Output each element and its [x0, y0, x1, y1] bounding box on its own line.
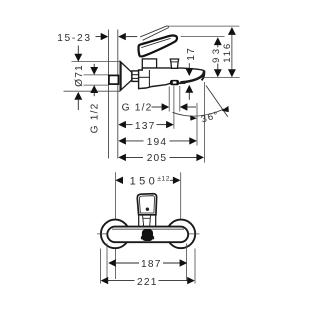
lever handle solid — [139, 36, 178, 57]
lever inner line — [141, 38, 170, 47]
cartridge — [142, 59, 156, 68]
spout underside thick — [180, 71, 204, 83]
body capsule — [107, 227, 188, 243]
36 degree slant line — [206, 86, 228, 117]
escutcheon circle left — [101, 220, 130, 249]
36 degree arc — [173, 109, 225, 116]
dim 187 — [108, 259, 187, 270]
dim 15-23 — [57, 33, 137, 44]
connector square — [109, 75, 119, 84]
svg-text:Ø71: Ø71 — [74, 64, 85, 87]
svg-text:G 1/2: G 1/2 — [122, 102, 153, 113]
svg-text:194: 194 — [147, 137, 168, 148]
ext 205 — [203, 82, 205, 163]
faucet body — [139, 68, 205, 89]
svg-text:205: 205 — [147, 153, 168, 164]
dim 221 — [101, 277, 195, 288]
dim G1/2 wall connection — [84, 64, 109, 134]
svg-text:G 1/2: G 1/2 — [89, 102, 100, 133]
ext line 116 top — [168, 25, 240, 27]
nut — [132, 71, 139, 82]
wall line inner — [108, 30, 110, 159]
knob front — [141, 236, 142, 239]
svg-text:17: 17 — [186, 47, 197, 61]
svg-text:187: 187 — [141, 259, 162, 270]
phantom lever — [140, 26, 166, 37]
ext line bottom ref — [204, 77, 240, 79]
handle front — [137, 194, 156, 215]
dim 150+-12 — [115, 175, 180, 187]
center axis line — [97, 233, 200, 235]
dim 93 — [211, 37, 222, 77]
center ext left — [114, 172, 116, 279]
dim 205 — [118, 153, 204, 164]
neck — [138, 215, 140, 227]
ext 221 right — [194, 249, 196, 284]
dim Ø71 — [64, 46, 120, 111]
svg-text:±12: ±12 — [157, 175, 170, 182]
escutcheon cone — [120, 62, 132, 91]
body seam horizontal — [139, 76, 150, 78]
svg-text:116: 116 — [222, 42, 233, 63]
capsule inner top line — [112, 228, 184, 230]
aerator — [170, 80, 179, 85]
outlet center ext — [173, 86, 175, 129]
svg-text:137: 137 — [135, 121, 156, 132]
dim 137 — [118, 121, 173, 132]
arc arrow on slant — [222, 106, 229, 112]
temp dot — [146, 208, 149, 211]
svg-text:150: 150 — [130, 176, 159, 188]
ext 221 left — [99, 249, 101, 284]
spout bottom line — [180, 82, 185, 84]
svg-text:15-23: 15-23 — [57, 33, 92, 44]
body seam vertical — [148, 70, 150, 87]
ext 187 left — [106, 244, 108, 282]
center ext right — [180, 172, 182, 247]
ext 187 right — [186, 244, 188, 282]
dim 17 — [185, 47, 197, 100]
arc arrow right — [190, 116, 197, 121]
dim 116 — [222, 27, 236, 77]
svg-text:221: 221 — [137, 277, 158, 288]
wire — [117, 30, 119, 159]
outlet edge ext lines — [168, 87, 170, 112]
escutcheon circle right — [167, 220, 196, 249]
svg-text:36°: 36° — [200, 110, 221, 126]
dim 194 — [118, 137, 197, 148]
diverter knob — [170, 59, 178, 68]
ext line 93 top — [181, 36, 225, 38]
G 1/2 spout label row — [122, 102, 196, 113]
svg-text:93: 93 — [211, 46, 222, 63]
ext 194/angle — [196, 103, 198, 146]
